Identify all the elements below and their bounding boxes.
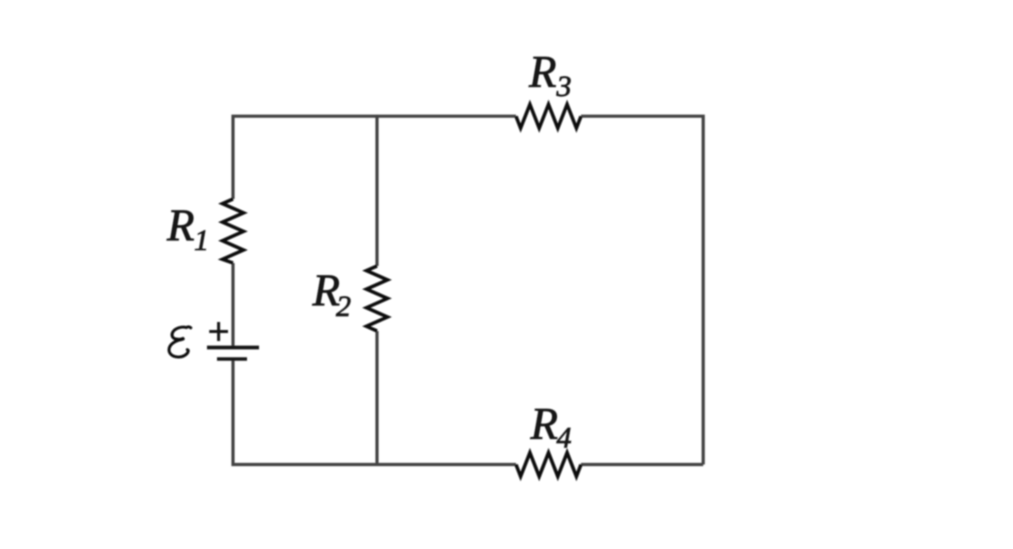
resistor R4 zigzag — [516, 453, 581, 477]
svg-text:R: R — [530, 399, 559, 449]
svg-text:1: 1 — [194, 224, 209, 257]
wire R3 to top-right corner and right branch down — [581, 116, 703, 464]
wire middle branch top — [375, 116, 378, 266]
svg-text:2: 2 — [336, 290, 351, 323]
svg-text:4: 4 — [557, 422, 572, 455]
resistor R3 zigzag — [516, 104, 581, 128]
resistor R1 zigzag — [223, 199, 244, 263]
battery negative plate (short) — [217, 357, 247, 360]
wire top-left to R3 — [233, 116, 516, 199]
label EMF script E — [169, 327, 191, 357]
wire middle branch bottom — [375, 331, 378, 465]
svg-text:3: 3 — [556, 70, 572, 103]
wire R4 to bottom-left corner and up to battery — [233, 360, 516, 465]
junction of middle branch with bottom wire — [376, 463, 379, 466]
resistor R2 zigzag — [367, 266, 388, 331]
wire bottom-right to R4 — [581, 463, 703, 466]
plus sign — [209, 322, 228, 341]
wire battery to R1 — [231, 263, 234, 346]
svg-text:R: R — [528, 47, 557, 97]
battery positive plate (long) — [207, 346, 259, 350]
junction of middle branch with top wire — [376, 115, 379, 118]
svg-text:R: R — [166, 201, 195, 251]
